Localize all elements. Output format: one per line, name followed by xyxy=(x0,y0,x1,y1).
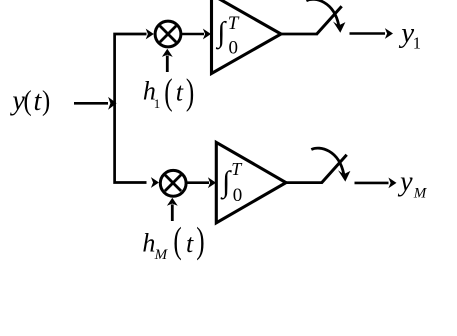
switch S1 arm xyxy=(316,6,341,34)
svg-text:(: ( xyxy=(23,84,31,116)
wire U1 apex to switch S1 xyxy=(280,33,318,36)
svg-text:1: 1 xyxy=(154,96,161,111)
svg-text:): ) xyxy=(196,220,204,261)
output label yM xyxy=(397,167,428,202)
h1(t) input arrow xyxy=(162,49,173,72)
svg-text:): ) xyxy=(42,84,50,116)
svg-text:M: M xyxy=(154,247,169,263)
svg-text:(: ( xyxy=(164,71,172,112)
svg-text:T: T xyxy=(228,13,240,34)
svg-text:t: t xyxy=(176,78,184,107)
svg-text:1: 1 xyxy=(413,34,421,53)
svg-text:(: ( xyxy=(173,220,181,261)
integrator U1 triangle xyxy=(212,0,282,74)
input label y(t) xyxy=(9,84,50,117)
switch S2 arm xyxy=(321,155,346,183)
integrator U2 triangle xyxy=(216,142,286,222)
switch S1 sampling arc with arrow xyxy=(306,0,345,33)
svg-text:∫: ∫ xyxy=(220,166,232,201)
svg-text:M: M xyxy=(413,185,428,201)
multiplier M1 xyxy=(155,21,181,47)
svg-text:0: 0 xyxy=(229,38,239,59)
wire arrow into multiplier M2 xyxy=(151,177,159,188)
wire M2 to integrator xyxy=(187,177,216,188)
svg-text:): ) xyxy=(186,71,194,112)
multiplier M2 xyxy=(160,170,186,196)
output label y1 xyxy=(398,17,421,53)
branch bus wire xyxy=(115,34,147,183)
output arrow branch 1 xyxy=(350,28,394,39)
label integral 0 to T (U2) xyxy=(220,159,243,206)
label h1(t) xyxy=(143,71,194,112)
label hM(t) xyxy=(142,220,204,263)
svg-text:t: t xyxy=(34,86,43,117)
svg-text:h: h xyxy=(142,228,155,257)
svg-text:y: y xyxy=(397,167,413,198)
wire M1 to integrator xyxy=(182,29,211,40)
switch S2 sampling arc with arrow xyxy=(311,148,350,181)
wire arrow into multiplier M1 xyxy=(146,29,154,40)
input arrow xyxy=(74,97,117,110)
label integral 0 to T (U1) xyxy=(215,13,239,59)
svg-text:0: 0 xyxy=(233,185,243,206)
wire U2 apex to switch S2 xyxy=(285,181,323,184)
hM(t) input arrow xyxy=(167,198,178,221)
output arrow branch M xyxy=(355,178,397,189)
svg-text:t: t xyxy=(186,229,194,258)
